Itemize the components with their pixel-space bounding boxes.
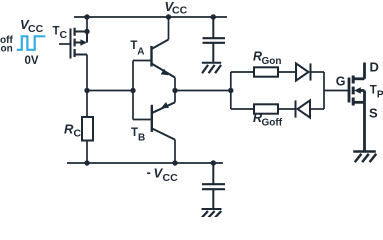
transistor TC (p-channel MOSFET) [71,28,88,59]
wire node row [87,90,133,92]
node rail-cap [211,14,216,19]
diode Doff [296,100,311,117]
resistor RC [86,91,88,118]
svg-text:CC: CC [163,172,179,184]
transistor TB (PNP) [152,102,175,140]
top rail VCC [74,16,227,18]
output node [172,88,177,93]
node at RC top [84,88,89,93]
label RC [64,122,82,140]
svg-text:C: C [60,29,68,41]
label RGoff [253,111,283,128]
wire TC source to top rail [86,17,88,32]
ground bottom [202,209,222,218]
svg-text:CC: CC [172,5,188,17]
svg-text:C: C [74,128,82,140]
svg-text:G: G [336,74,346,88]
base line TA/TB [132,61,134,120]
wire gate of TC [59,43,71,45]
branch split node [228,88,233,93]
resistor RGon [231,71,254,73]
svg-text:P: P [377,90,383,101]
label RGon [253,50,282,67]
wire TB collector [174,140,176,163]
svg-text:T: T [53,25,60,37]
transistor TA (NPN) [152,40,176,78]
svg-text:R: R [64,122,74,137]
capacitor bottom [202,163,225,209]
label VCC input [20,17,44,35]
wire TA emitter [174,78,176,91]
wire branch vertical left [230,72,232,109]
input square wave [17,36,46,50]
diode Don [296,63,311,80]
label TC [53,25,68,41]
ground TP [353,152,376,163]
node at base line [130,88,135,93]
svg-text:T: T [370,85,377,97]
bottom rail -VCC [67,162,223,164]
svg-text:D: D [370,59,379,74]
label VCC top [165,0,188,17]
wire TA collector [168,17,170,40]
node rail-TA [166,14,171,19]
svg-text:A: A [137,46,144,57]
capacitor top [203,17,226,63]
svg-text:Goff: Goff [262,117,283,128]
svg-text:S: S [369,105,378,120]
node rail-TC [84,14,89,19]
node TC source/body [84,29,89,34]
transistor TP (power MOSFET) [349,63,365,152]
label TP [370,85,383,101]
svg-text:Gon: Gon [262,56,282,67]
resistor RGoff [231,108,254,110]
svg-text:on: on [1,44,13,55]
svg-text:B: B [138,133,145,144]
node rail-cap2 [211,160,216,165]
label -VCC [147,165,179,185]
wire TB emitter [174,91,176,103]
wire to gate TP [324,90,349,92]
svg-text:0V: 0V [25,55,39,67]
wire TC drain down [86,55,88,91]
label TB [131,127,145,144]
ground top [202,63,221,73]
node rail-TB [172,160,177,165]
svg-text:T: T [131,127,138,139]
node rail-RC [84,160,89,165]
wire output [175,90,231,92]
svg-text:CC: CC [28,23,44,35]
svg-text:-: - [147,165,151,180]
label TA [130,40,144,57]
wire branch vertical right [323,72,325,109]
